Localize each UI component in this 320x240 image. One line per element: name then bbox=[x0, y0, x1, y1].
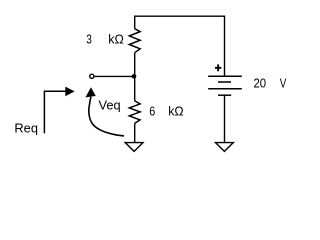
svg-text:kΩ: kΩ bbox=[108, 31, 124, 46]
arrowhead Req bbox=[65, 87, 74, 97]
arrow Veq curved bbox=[89, 97, 124, 136]
ground right bbox=[216, 143, 234, 152]
wire node horizontal bbox=[95, 75, 135, 77]
junction dot node bbox=[132, 74, 137, 79]
battery V1 plate long 1 bbox=[208, 75, 242, 77]
battery V1 plate short 2 bbox=[218, 94, 231, 96]
arrow Req L-shaped bbox=[44, 91, 65, 133]
wire lower left vertical bbox=[134, 123, 136, 142]
ground left bbox=[125, 143, 143, 152]
svg-text:kΩ: kΩ bbox=[168, 104, 184, 119]
battery V1 plus sign bbox=[215, 64, 221, 71]
arrowhead Veq bbox=[85, 87, 95, 97]
svg-text:6: 6 bbox=[149, 104, 155, 119]
wire middle left vertical bbox=[134, 53, 136, 101]
battery V1 plate long 2 bbox=[208, 88, 242, 90]
svg-text:Veq: Veq bbox=[99, 98, 121, 113]
wire top horizontal bbox=[135, 15, 225, 17]
svg-text:V: V bbox=[280, 76, 287, 91]
svg-text:20: 20 bbox=[254, 76, 267, 91]
resistor R1 3k zigzag bbox=[129, 29, 140, 53]
terminal open circle bbox=[90, 74, 94, 78]
resistor R2 6k zigzag bbox=[129, 101, 140, 123]
wire right branch vertical lower bbox=[224, 95, 226, 142]
wire right branch vertical upper bbox=[224, 16, 226, 76]
svg-text:Req: Req bbox=[14, 121, 38, 136]
wire left branch upper lead bbox=[134, 16, 136, 29]
battery V1 plate short 1 bbox=[218, 81, 231, 83]
svg-text:3: 3 bbox=[86, 31, 92, 46]
